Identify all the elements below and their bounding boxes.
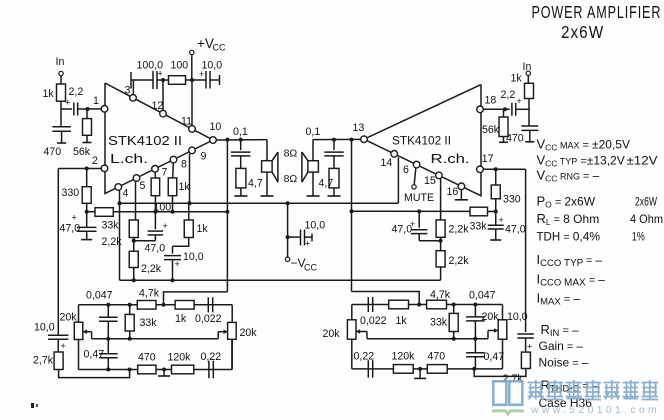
capacitor 0,047 L	[86, 290, 118, 339]
svg-text:1k: 1k	[396, 315, 408, 327]
node L 2,2k lower tap	[132, 278, 136, 282]
node L output cap tap	[239, 138, 243, 142]
wire L wiper bus	[92, 338, 219, 340]
svg-text:33k: 33k	[102, 219, 120, 231]
wire R wiper bus	[367, 338, 488, 340]
svg-text:Gain = –: Gain = –	[539, 339, 584, 353]
potentiometer 20k L left	[60, 305, 92, 370]
node L bottom 2,7k link	[128, 368, 132, 372]
potentiometer 20k R right	[482, 305, 507, 369]
svg-text:+: +	[517, 96, 522, 106]
resistor 2,2k L first	[102, 220, 139, 248]
svg-text:6: 6	[403, 164, 409, 176]
node R bottom 2,7k link	[472, 367, 476, 371]
wire R network bottom row	[352, 368, 503, 370]
wire speaker R to ground	[312, 172, 314, 196]
op-amp U1 STK4102 II L.ch triangle	[105, 83, 213, 194]
capacitor 2,2 L input	[61, 86, 88, 116]
node -Vcc cap tap	[286, 235, 290, 239]
node R row 0,047 tap	[473, 303, 477, 307]
resistor 4,7k L	[137, 288, 159, 310]
svg-text:120k: 120k	[392, 351, 416, 363]
svg-text:4,7: 4,7	[248, 178, 263, 190]
resistor 56k R input	[482, 109, 508, 142]
svg-text:+V: +V	[197, 36, 214, 51]
resistor 1k R bottom	[389, 300, 409, 327]
resistor 2,7k L corner	[33, 339, 63, 369]
wire pin 9 drop	[189, 154, 191, 204]
svg-text:1k: 1k	[511, 73, 523, 85]
svg-text:20k: 20k	[323, 328, 341, 340]
wire -Vcc drop	[287, 203, 289, 257]
resistor 33k L bias	[87, 208, 120, 232]
svg-text:47,0: 47,0	[392, 224, 413, 236]
wire 2,7k L return	[59, 370, 130, 378]
svg-text:STK4102 II: STK4102 II	[392, 134, 451, 148]
wire R feedback link to top row	[352, 292, 420, 305]
svg-text:+: +	[499, 215, 504, 225]
ground L bottom row	[158, 370, 170, 377]
svg-text:0,022: 0,022	[360, 315, 387, 327]
node L divider junction	[132, 239, 136, 243]
node 330 R tap	[494, 167, 498, 171]
wire pin 17 drop to 10,0	[525, 169, 527, 332]
svg-text:8: 8	[181, 159, 187, 171]
node R row link tap	[417, 303, 421, 307]
svg-text:2: 2	[92, 155, 98, 167]
svg-text:2,2: 2,2	[501, 89, 516, 101]
wire R output down to speaker	[312, 140, 314, 161]
potentiometer 20k R left	[323, 305, 368, 369]
wire Vcc node to pin 11	[191, 80, 193, 126]
wire long bus pin4 to pin14	[120, 202, 399, 204]
U1 pin 3	[125, 85, 137, 102]
capacitor 0,22 L	[201, 351, 222, 378]
U1 pin 2	[92, 155, 108, 172]
resistor 470 L bottom	[138, 352, 156, 374]
U1 pin 1	[93, 95, 108, 112]
svg-text:RIN = –: RIN = –	[541, 322, 579, 339]
ground 470 L	[57, 142, 66, 144]
resistor 330 L	[62, 169, 92, 212]
node pin12 junction	[161, 78, 165, 82]
U2 pin 14	[381, 151, 398, 170]
svg-text:+: +	[163, 221, 168, 231]
node Vcc junction	[190, 78, 194, 82]
wire node to pin 12	[162, 80, 164, 110]
U1 pin 5	[133, 175, 145, 192]
capacitor 0,1 L	[231, 126, 250, 156]
node R NF rail start	[350, 209, 354, 213]
+Vcc terminal	[190, 36, 226, 55]
node L output feedback tap	[225, 138, 229, 142]
U2 pin 16	[447, 183, 465, 198]
U2 pin 13	[353, 122, 368, 143]
svg-text:470: 470	[44, 146, 62, 158]
svg-text:10: 10	[210, 121, 222, 133]
ground 56k R	[499, 141, 508, 143]
resistor 1k L input	[43, 84, 66, 101]
svg-text:CC: CC	[213, 43, 226, 53]
node L NF rail end	[225, 210, 229, 214]
capacitor 47,0 R bias	[488, 212, 526, 240]
node L row link tap	[162, 303, 166, 307]
ground 4,7 R	[328, 195, 341, 197]
svg-text:4: 4	[123, 188, 129, 200]
node L input junction	[86, 107, 90, 111]
svg-text:7: 7	[162, 167, 168, 179]
svg-text:470: 470	[138, 352, 156, 364]
svg-text:+: +	[527, 342, 532, 352]
svg-text:17: 17	[482, 153, 494, 165]
svg-text:0,22: 0,22	[354, 351, 375, 363]
svg-text:+: +	[72, 213, 77, 223]
svg-text:8Ω: 8Ω	[284, 147, 298, 159]
svg-text:0,047: 0,047	[86, 290, 113, 302]
svg-text:47,0: 47,0	[505, 224, 526, 236]
svg-text:100: 100	[154, 202, 172, 214]
wire speaker L to ground	[266, 172, 268, 196]
svg-text:4,7: 4,7	[319, 178, 334, 190]
svg-text:18: 18	[485, 95, 497, 107]
capacitor 0,47 R	[466, 339, 504, 369]
svg-text:4 Ohm: 4 Ohm	[630, 212, 663, 226]
svg-text:R.ch.: R.ch.	[431, 151, 470, 166]
svg-text:In: In	[56, 56, 65, 68]
U2 pin 15	[424, 172, 442, 187]
svg-text:0,47: 0,47	[84, 349, 105, 361]
ground speaker R	[307, 195, 320, 197]
node R output cap tap	[332, 138, 336, 142]
capacitor 10,0 Vcc	[192, 60, 222, 89]
resistor 120k R bottom	[392, 351, 416, 374]
svg-text:10,0: 10,0	[202, 60, 223, 72]
U1 pin 11	[181, 116, 195, 133]
svg-text:9: 9	[201, 151, 207, 163]
svg-text:14: 14	[381, 157, 393, 169]
svg-text:0,047: 0,047	[469, 290, 496, 302]
wire res100 to rail and 47,0	[154, 196, 156, 230]
svg-text:100: 100	[171, 60, 189, 72]
svg-text:56k: 56k	[73, 146, 91, 158]
wire pin 2 to left rail	[58, 168, 101, 170]
wire L feedback vertical	[226, 140, 228, 292]
resistor 33k L vertical	[125, 305, 157, 339]
svg-text:MUTE: MUTE	[404, 192, 434, 204]
wire pin 16 to ground	[460, 190, 462, 200]
svg-text:1k: 1k	[175, 313, 187, 325]
capacitor 2,2 R input	[501, 89, 530, 116]
svg-text:0,1: 0,1	[306, 126, 321, 138]
speaker R 8 Ohm	[302, 152, 319, 182]
svg-text:8Ω: 8Ω	[284, 173, 298, 185]
resistor 2,2k R first	[436, 220, 469, 241]
node L bottom 0,47	[106, 368, 110, 372]
node L 10,0 lower tap	[171, 278, 175, 282]
capacitor 47,0 R mid	[392, 211, 441, 240]
wire bus riser to pin 14	[397, 157, 399, 203]
node R divider junction	[439, 239, 443, 243]
node -Vcc bus junction	[286, 201, 290, 205]
node R input junction	[503, 107, 507, 111]
node R wiper bus 0,47	[473, 337, 477, 341]
svg-text:33k: 33k	[140, 317, 158, 329]
resistor 100 under pin 7	[151, 172, 171, 213]
wire R NF rail	[352, 210, 471, 212]
svg-text:1k: 1k	[43, 88, 55, 100]
ground 4,7 L	[234, 195, 247, 197]
resistor 2,2k L second	[129, 241, 161, 280]
svg-text:2,7k: 2,7k	[33, 355, 54, 367]
svg-text:+: +	[65, 98, 70, 108]
svg-text:+: +	[305, 239, 310, 249]
resistor 1k L mid	[184, 203, 208, 237]
resistor 2,2k R second	[436, 241, 469, 281]
resistor 100 Vcc	[163, 60, 192, 85]
wire pin 15 drop	[440, 179, 442, 220]
svg-text:+: +	[61, 341, 66, 351]
node pin9 bus junction	[188, 201, 192, 205]
wire +Vcc down	[191, 55, 193, 80]
svg-text:10,0: 10,0	[34, 322, 55, 334]
svg-text:±12V: ±12V	[627, 154, 658, 168]
svg-text:47,0: 47,0	[60, 223, 81, 235]
capacitor 47,0 L mid	[134, 221, 168, 255]
node L row 33k tap	[128, 303, 132, 307]
svg-text:2,2k: 2,2k	[141, 263, 162, 275]
node 330 L tap	[85, 167, 89, 171]
wire L bottom row right riser	[231, 339, 233, 369]
node L row 0,047 tap	[106, 303, 110, 307]
speaker L 8 Ohm	[262, 152, 278, 182]
ground 47,0 R bias	[490, 239, 501, 241]
wire long lower rail	[120, 279, 441, 281]
U1 pin 9	[189, 147, 207, 162]
svg-text:2,2k: 2,2k	[102, 236, 123, 248]
node pin4 bus junction	[118, 201, 122, 205]
capacitor 0,22 R	[354, 351, 375, 378]
node L wiper bus 33k	[128, 337, 132, 341]
ground 47,0 L bias	[81, 239, 92, 241]
svg-text:1%: 1%	[632, 230, 645, 244]
wire 1k R down to junction	[528, 99, 530, 126]
svg-text:0,022: 0,022	[195, 313, 222, 325]
svg-text:2,2k: 2,2k	[449, 224, 470, 236]
wire L feedback link to top row	[164, 292, 228, 305]
svg-text:Noise = –: Noise = –	[539, 356, 589, 370]
svg-text:20k: 20k	[60, 311, 78, 323]
svg-text:13: 13	[353, 122, 365, 134]
svg-text:10,0: 10,0	[183, 251, 204, 263]
node L bottom ground tap	[162, 368, 166, 372]
U1 pin 7	[152, 166, 168, 179]
U1 pin 12	[152, 100, 167, 117]
wire L output down to speaker	[266, 140, 268, 161]
node R wiper bus 33k	[452, 337, 456, 341]
svg-text:CC: CC	[304, 263, 317, 273]
node R bottom ground tap	[418, 367, 422, 371]
svg-text:0,1: 0,1	[233, 126, 248, 138]
node L wiper bus 0,047	[106, 337, 110, 341]
wire left rail down	[57, 169, 59, 336]
stray mark bottom left	[31, 403, 34, 408]
watermark chinese characters	[528, 380, 659, 400]
svg-text:2,2: 2,2	[69, 86, 84, 98]
U1 pin 8	[170, 156, 187, 170]
resistor 1k L bottom	[175, 301, 194, 326]
wire L network bottom row	[79, 369, 233, 371]
svg-text:330: 330	[62, 187, 80, 199]
capacitor 10,0 L mid	[164, 246, 204, 280]
resistor 4,7 L	[236, 156, 263, 196]
wire U1 output	[216, 139, 267, 141]
resistor 56k L input	[73, 109, 92, 158]
-Vcc terminal	[285, 256, 317, 273]
wire U2 output	[313, 138, 361, 140]
capacitor 0,047 R	[466, 290, 496, 339]
capacitor 47,0 L bias	[60, 212, 97, 240]
svg-text:+: +	[175, 259, 180, 269]
svg-text:120k: 120k	[168, 352, 192, 364]
svg-text:0,47: 0,47	[484, 351, 505, 363]
svg-text:TDH = 0,4%: TDH = 0,4%	[537, 230, 601, 244]
capacitor 10,0 R corner	[507, 311, 534, 352]
ground 470 R	[525, 141, 534, 143]
U1 pin 4	[115, 184, 129, 200]
wire L network top row	[79, 304, 233, 306]
svg-text:16: 16	[447, 186, 459, 198]
wire pin3 up	[132, 81, 134, 95]
U1 pin 10	[210, 121, 222, 143]
svg-text:15: 15	[424, 175, 436, 187]
svg-text:3: 3	[125, 85, 131, 97]
resistor 120k L bottom	[168, 352, 194, 374]
node R bias junction	[494, 210, 498, 214]
svg-text:2,2k: 2,2k	[449, 255, 470, 267]
potentiometer 20k L right	[218, 305, 257, 370]
capacitor 100,0 Vcc	[131, 60, 163, 90]
svg-text:4,7k: 4,7k	[139, 288, 160, 300]
wire junction to pin 1	[88, 108, 102, 110]
svg-text:1: 1	[93, 95, 99, 107]
svg-text:L.ch.: L.ch.	[110, 151, 148, 166]
U2 pin 17	[477, 153, 494, 173]
svg-text:2x6W: 2x6W	[561, 22, 604, 42]
watermark logo book icon	[492, 381, 524, 414]
resistor 1k under pin 8	[168, 163, 190, 212]
wire 1k to 10,0 L	[173, 238, 189, 247]
wire junction to pin 18	[483, 108, 505, 110]
resistor 2,7k R corner	[503, 338, 531, 385]
wire R feedback vertical	[351, 140, 353, 292]
wire 1k to junction and 470 cap	[60, 101, 62, 127]
ground 56k L	[83, 142, 92, 144]
wire In to R 1k	[60, 76, 62, 84]
svg-text:20k: 20k	[240, 327, 258, 339]
svg-text:33k: 33k	[470, 221, 488, 233]
capacitor 0,1 R	[306, 126, 344, 156]
U2 pin 18	[477, 95, 497, 113]
wire L NF rail	[113, 211, 227, 213]
svg-text:5: 5	[140, 180, 146, 192]
wire pin 5 drop	[135, 181, 137, 220]
wire pin 4 drop	[119, 190, 121, 280]
svg-text:100,0: 100,0	[137, 60, 164, 72]
capacitor 10,0 L corner	[34, 322, 68, 352]
svg-text:POWER AMPLIFIER: POWER AMPLIFIER	[532, 3, 662, 23]
node L bias junction	[85, 210, 89, 214]
resistor 1k R input	[511, 73, 534, 99]
op-amp U2 STK4102 II R.ch triangle	[364, 85, 481, 196]
capacitor 0,022 R	[360, 297, 387, 327]
capacitor 470 R input	[506, 126, 538, 145]
svg-text:20k: 20k	[482, 311, 500, 323]
capacitor 0,47 L	[84, 339, 118, 370]
node L 1k rail tap	[171, 210, 175, 214]
svg-text:0,22: 0,22	[201, 351, 222, 363]
svg-text:12: 12	[152, 100, 164, 112]
capacitor 10,0 -Vcc	[288, 220, 326, 249]
svg-text:STK4102 II: STK4102 II	[108, 133, 182, 148]
wire R network top row	[352, 304, 503, 306]
capacitor 470 L input	[44, 127, 71, 158]
resistor 330 R	[491, 169, 521, 211]
svg-text:4,7k: 4,7k	[430, 289, 451, 301]
node R output feedback tap	[350, 138, 354, 142]
resistor 33k R bias	[470, 207, 496, 232]
resistor 470 R bottom	[427, 351, 447, 374]
svg-text:33k: 33k	[430, 317, 448, 329]
svg-text:470: 470	[428, 351, 446, 363]
svg-text:1k: 1k	[179, 181, 191, 193]
svg-text:10,0: 10,0	[305, 220, 326, 232]
wire pin 17 right	[483, 168, 525, 170]
svg-text:www.520101.com: www.520101.com	[530, 404, 660, 416]
capacitor 0,022 L	[195, 297, 222, 325]
ground R bottom row	[414, 369, 426, 379]
L input terminal In	[56, 56, 65, 76]
node L 47,0 rail tap	[153, 210, 157, 214]
ground speaker L	[261, 195, 274, 197]
resistor 33k R vertical	[430, 305, 458, 339]
wire 2,7k R return	[474, 369, 526, 377]
svg-text:10,0: 10,0	[507, 311, 528, 323]
wire In R to 1k	[527, 76, 529, 84]
svg-text:56k: 56k	[482, 124, 500, 136]
ground pin 16	[455, 199, 468, 201]
resistor 4,7k R	[427, 289, 451, 309]
svg-text:2x6W: 2x6W	[635, 195, 657, 209]
svg-text:330: 330	[503, 194, 521, 206]
svg-text:1k: 1k	[197, 223, 209, 235]
node R 47,0 rail tap	[417, 209, 421, 213]
MUTE terminal pin 6	[404, 168, 434, 204]
node R row 33k tap	[452, 303, 456, 307]
resistor 4,7 R	[319, 156, 340, 196]
svg-text:11: 11	[181, 116, 192, 128]
svg-text:47,0: 47,0	[145, 243, 166, 255]
R input terminal In	[523, 61, 532, 76]
U2 pin 6	[403, 161, 420, 176]
